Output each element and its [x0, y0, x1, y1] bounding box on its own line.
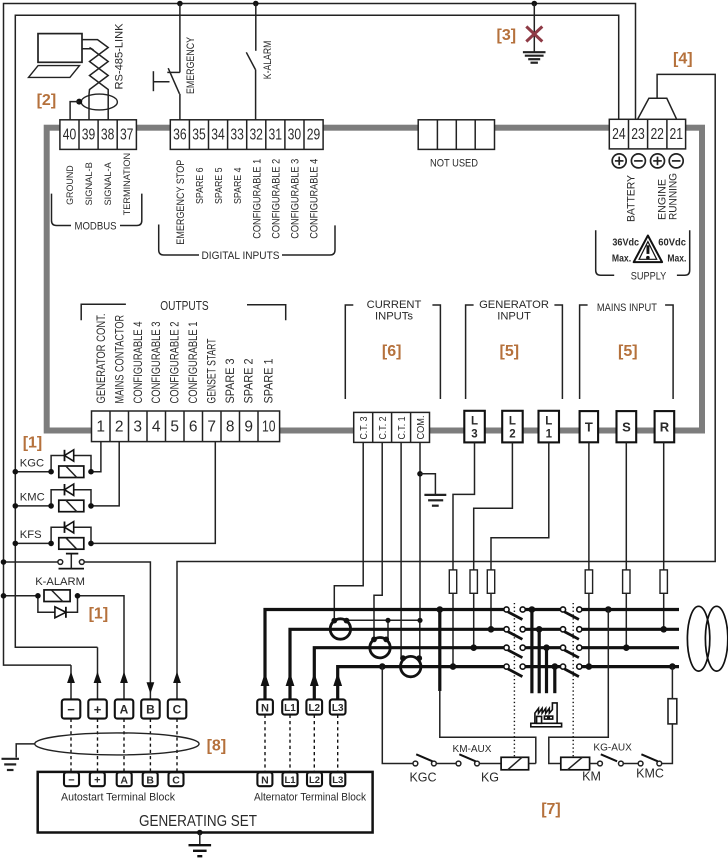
svg-text:Max.: Max.: [667, 252, 686, 264]
wire N drop to KG coil circuit: [438, 610, 441, 692]
wire CT common line to COM: [347, 619, 421, 621]
wire KM coil to KG-AUX: [590, 763, 598, 765]
terminal box B row1: [141, 699, 160, 718]
gray device outline bus: [47, 128, 702, 431]
terminal strip NOT USED: [418, 120, 494, 150]
contact KG-AUX: [593, 742, 632, 765]
terminal box N row2: [257, 772, 272, 786]
bus L1 generator: [290, 629, 679, 699]
svg-text:SUPPLY: SUPPLY: [631, 270, 667, 282]
polarity circle - (21): [669, 154, 683, 168]
svg-text:C.T. 2: C.T. 2: [378, 416, 389, 439]
node dots on busses: [379, 606, 676, 670]
svg-text:CONFIGURABLE 4: CONFIGURABLE 4: [309, 159, 321, 239]
svg-text:[2]: [2]: [37, 92, 57, 109]
svg-text:GENERATING SET: GENERATING SET: [139, 813, 257, 830]
svg-text:[3]: [3]: [497, 27, 517, 44]
terminal box plus row2: [90, 772, 105, 786]
svg-text:5: 5: [170, 418, 179, 435]
terminal strip 36-29: [170, 120, 323, 150]
terminal S: [617, 411, 637, 442]
svg-text:[6]: [6]: [382, 343, 402, 360]
svg-text:BATTERY: BATTERY: [626, 175, 638, 222]
svg-text:[5]: [5]: [500, 343, 520, 360]
svg-text:C: C: [173, 703, 182, 717]
svg-text:−: −: [67, 702, 75, 717]
svg-text:38: 38: [101, 127, 115, 144]
svg-text:L2: L2: [308, 703, 320, 714]
terminal box A row1: [115, 699, 134, 718]
svg-text:KMC: KMC: [636, 766, 664, 780]
relay K-ALARM: [1, 576, 124, 699]
svg-text:KGC: KGC: [20, 458, 44, 470]
svg-text:C.T. 1: C.T. 1: [397, 416, 408, 439]
wire KG coil up to N: [529, 763, 536, 765]
svg-text:31: 31: [269, 127, 283, 144]
bracket SUPPLY: [596, 230, 690, 282]
contactor KG poles: [504, 607, 525, 677]
svg-text:KM-AUX: KM-AUX: [453, 744, 492, 755]
wire: K-ALARM input branch to terminal 32: [246, 4, 256, 120]
bracket MAINS INPUT [5]: [580, 302, 674, 399]
polarity circle + (24): [612, 154, 626, 168]
svg-text:COM.: COM.: [416, 416, 427, 440]
svg-text:C: C: [172, 774, 180, 786]
wire L3 input with fuse: [453, 442, 475, 666]
svg-text:GENSET START: GENSET START: [205, 338, 219, 403]
svg-text:SPARE 2: SPARE 2: [242, 358, 256, 403]
svg-text:INPUT: INPUT: [497, 310, 531, 322]
svg-text:EMERGENCY: EMERGENCY: [185, 37, 197, 94]
svg-text:SPARE 4: SPARE 4: [233, 167, 244, 204]
svg-text:B: B: [146, 703, 155, 717]
svg-text:L1: L1: [284, 703, 296, 714]
ground symbol genset: [189, 845, 212, 856]
wire: ground branch [3]: [533, 4, 535, 52]
polarity circle + (22): [651, 154, 665, 168]
svg-text:A: A: [120, 703, 129, 717]
svg-text:2: 2: [115, 418, 124, 435]
connector trapezoid engine running: [638, 98, 677, 119]
linkage dotted KG: [513, 603, 515, 758]
wire C.T.1 to CT circle 3: [400, 442, 402, 657]
terminal box L2 row2: [307, 772, 322, 786]
coil KM: [561, 757, 601, 783]
terminal box N row1: [257, 699, 273, 714]
generator motor symbol: [687, 606, 727, 671]
svg-text:23: 23: [631, 126, 645, 143]
switch actuator: emergency push button: [153, 71, 169, 91]
svg-text:22: 22: [650, 126, 664, 143]
wire bus N to KM coil: [549, 610, 609, 764]
svg-text:2: 2: [509, 429, 515, 441]
arrow L3 up: [333, 673, 342, 687]
arrow C up: [173, 672, 181, 684]
terminal box A row2: [117, 772, 132, 786]
svg-text:L3: L3: [332, 775, 343, 786]
ground symbol COM: [424, 495, 446, 506]
bracket CURRENT INPUTs [6]: [345, 299, 440, 399]
svg-text:SPARE 3: SPARE 3: [223, 358, 237, 403]
terminal box minus row2: [64, 772, 79, 786]
svg-text:L1: L1: [284, 775, 296, 786]
load feeder drops: [532, 610, 555, 694]
svg-text:29: 29: [307, 127, 321, 144]
svg-text:SIGNAL-A: SIGNAL-A: [103, 162, 114, 206]
shield ellipse around modbus wires: [81, 94, 117, 110]
pushbutton contact to B: [1, 554, 151, 700]
svg-text:[1]: [1]: [89, 606, 109, 623]
bracket DIGITAL INPUTS: [159, 225, 335, 263]
svg-text:R: R: [660, 420, 670, 435]
terminal box L1 row2: [283, 772, 298, 786]
svg-text:35: 35: [192, 127, 206, 144]
svg-text:1: 1: [96, 418, 105, 435]
svg-text:3: 3: [133, 418, 142, 435]
terminal T: [580, 411, 599, 442]
bus L2 generator: [314, 648, 679, 700]
svg-text:GENERATOR CONT.: GENERATOR CONT.: [94, 314, 108, 404]
bus N (alternator neutral): [265, 610, 679, 700]
svg-text:33: 33: [230, 127, 244, 144]
svg-text:KM: KM: [582, 770, 601, 784]
contactor KM poles: [560, 607, 582, 677]
svg-text:[8]: [8]: [207, 738, 227, 755]
svg-text:6: 6: [189, 418, 198, 435]
terminal L3: [464, 411, 485, 443]
svg-text:A: A: [120, 774, 128, 786]
GENERATING SET box: [38, 772, 373, 833]
contact KMC: [636, 754, 664, 780]
terminal box C row1: [168, 699, 187, 718]
terminal box C row2: [169, 772, 184, 786]
svg-text:KGC: KGC: [409, 770, 436, 784]
arrow L2 up: [310, 673, 319, 687]
coil KG: [481, 757, 529, 784]
svg-text:L: L: [545, 416, 552, 428]
terminal box plus row1: [88, 699, 107, 718]
wire C.T.2 to CT circle 2: [374, 442, 382, 639]
wire: shield to terminal 40: [70, 102, 79, 120]
svg-text:SIGNAL-B: SIGNAL-B: [84, 162, 95, 205]
svg-text:24: 24: [612, 126, 626, 143]
svg-text:GENERATOR: GENERATOR: [479, 299, 549, 311]
wire COM down with ground branch: [419, 442, 421, 620]
svg-text:N: N: [261, 702, 269, 714]
svg-text:NOT USED: NOT USED: [430, 158, 478, 170]
terminal R: [655, 411, 675, 442]
wire KG-AUX to KMC: [623, 763, 638, 765]
svg-text:7: 7: [207, 418, 216, 435]
wire bus L3 to KGC contact chain: [382, 667, 413, 764]
svg-text:KMC: KMC: [20, 492, 45, 504]
warning triangle: [634, 236, 662, 263]
svg-text:36: 36: [173, 127, 187, 144]
contact KGC: [409, 754, 436, 784]
linkage dotted KM: [572, 603, 574, 758]
terminal strip 24-21: [609, 119, 685, 149]
svg-text:S: S: [622, 420, 631, 435]
svg-text:CONFIGURABLE 3: CONFIGURABLE 3: [149, 321, 163, 403]
svg-text:RS-485-LINK: RS-485-LINK: [113, 23, 125, 90]
svg-text:CONFIGURABLE 2: CONFIGURABLE 2: [168, 321, 182, 403]
wire S input with fuse: [625, 442, 627, 647]
svg-text:C.T. 3: C.T. 3: [359, 416, 370, 439]
svg-text:CONFIGURABLE 2: CONFIGURABLE 2: [270, 159, 282, 239]
factory load icon: [531, 703, 562, 727]
wire: engine running loop [4] to C terminal: [177, 74, 715, 699]
relay KMC: [13, 442, 120, 512]
svg-text:SPARE 6: SPARE 6: [195, 167, 206, 204]
terminal box minus row1: [62, 699, 81, 718]
svg-text:36Vdc: 36Vdc: [612, 237, 639, 249]
svg-text:KG: KG: [481, 770, 499, 784]
laptop computer icon: [29, 34, 83, 78]
bus L3 generator: [338, 667, 679, 700]
arrow A up: [120, 672, 128, 684]
wire R input with fuse: [663, 442, 665, 629]
svg-text:KFS: KFS: [20, 529, 42, 541]
svg-text:K-ALARM: K-ALARM: [35, 576, 85, 588]
wire KM-AUX to KG coil: [479, 763, 501, 765]
svg-text:CONFIGURABLE 1: CONFIGURABLE 1: [186, 321, 200, 403]
svg-text:MAINS INPUT: MAINS INPUT: [597, 302, 657, 314]
terminal strip outputs 1-10: [92, 411, 280, 442]
terminal L1: [539, 411, 560, 443]
svg-text:K-ALARM: K-ALARM: [262, 41, 274, 80]
svg-text:TERMINATION: TERMINATION: [122, 153, 133, 216]
svg-text:10: 10: [262, 418, 276, 435]
svg-text:−: −: [68, 775, 74, 787]
svg-text:[5]: [5]: [618, 343, 638, 360]
svg-text:+: +: [94, 702, 102, 717]
wire shield to ground: [16, 744, 35, 758]
node ground genset: [197, 830, 203, 836]
svg-text:T: T: [585, 420, 593, 435]
terminal box L2 row1: [306, 699, 322, 714]
wire KMC up through fuse to bus L3: [662, 667, 673, 764]
ground symbol shield: [2, 759, 20, 770]
terminal box B row2: [143, 772, 158, 786]
arrow B down: [147, 682, 155, 694]
ground symbol top: [523, 52, 546, 63]
wire plus arrow: [97, 647, 99, 699]
svg-text:Autostart Terminal Block: Autostart Terminal Block: [61, 791, 175, 803]
svg-text:+: +: [94, 775, 100, 787]
svg-text:B: B: [146, 774, 154, 786]
wire T input with fuse: [588, 442, 590, 666]
bracket OUTPUTS: [81, 299, 286, 321]
svg-text:3: 3: [471, 429, 477, 441]
terminal L2: [502, 411, 523, 443]
wire L1 input with fuse: [491, 442, 549, 629]
wire: outer loop rail from minus arrow up over top to terminal 23: [4, 4, 636, 666]
svg-text:CONFIGURABLE 1: CONFIGURABLE 1: [251, 159, 263, 239]
svg-text:CONFIGURABLE 4: CONFIGURABLE 4: [131, 321, 145, 403]
terminal box L3 row2: [330, 772, 345, 786]
svg-text:L: L: [471, 416, 478, 428]
svg-text:CURRENT: CURRENT: [367, 299, 422, 311]
svg-text:Max.: Max.: [612, 252, 631, 264]
svg-text:N: N: [261, 774, 269, 786]
svg-text:21: 21: [670, 126, 684, 143]
polarity circle - (23): [631, 154, 645, 168]
relay KGC: [13, 442, 101, 478]
current transformer CT2 on L2: [370, 637, 390, 658]
svg-text:SPARE 1: SPARE 1: [262, 358, 276, 403]
no-connection red X: [526, 27, 542, 42]
node: junction dots on top rail: [177, 1, 183, 7]
arrow L1 up: [286, 673, 295, 687]
svg-text:GROUND: GROUND: [65, 165, 76, 205]
relay KFS: [13, 442, 216, 550]
bracket GENERATOR INPUT [5]: [466, 299, 563, 399]
svg-text:37: 37: [120, 127, 134, 144]
svg-text:INPUTs: INPUTs: [375, 310, 413, 322]
svg-text:40: 40: [63, 127, 77, 144]
svg-text:RUNNING: RUNNING: [668, 173, 680, 220]
wire: RS-485 twisted pair: [82, 40, 108, 120]
wire L2 input with fuse: [474, 442, 513, 647]
svg-text:L3: L3: [332, 703, 344, 714]
terminal box L1 row1: [282, 699, 298, 714]
terminal strip 40-37: [60, 120, 136, 150]
contact KM-AUX: [453, 744, 492, 766]
svg-text:MAINS CONTACTOR: MAINS CONTACTOR: [112, 315, 126, 404]
svg-text:34: 34: [211, 127, 225, 144]
arrow N up: [261, 673, 270, 687]
svg-text:9: 9: [244, 418, 253, 435]
svg-text:KG-AUX: KG-AUX: [593, 742, 632, 753]
svg-text:60Vdc: 60Vdc: [658, 237, 686, 249]
svg-text:[7]: [7]: [541, 801, 561, 818]
current transformer CT3 on L3: [400, 655, 422, 677]
terminal strip C.T.: [354, 412, 430, 442]
svg-text:30: 30: [288, 127, 302, 144]
wire: inner loop rail from plus arrow up over top to terminal 24: [15, 15, 618, 647]
current transformer CT1 on L1: [330, 618, 350, 640]
svg-text:Alternator Terminal Block: Alternator Terminal Block: [254, 791, 366, 803]
svg-text:1: 1: [546, 429, 553, 441]
svg-text:L2: L2: [309, 775, 320, 786]
svg-text:[1]: [1]: [23, 435, 43, 452]
wire C.T.3 to CT circle 1: [334, 442, 363, 620]
svg-text:32: 32: [249, 127, 263, 144]
terminal box L3 row1: [330, 699, 346, 714]
svg-text:[4]: [4]: [673, 51, 693, 68]
svg-text:OUTPUTS: OUTPUTS: [160, 299, 208, 313]
svg-text:L: L: [509, 416, 516, 428]
node: shield drain junction: [76, 99, 82, 105]
wire genset ground: [199, 833, 201, 845]
svg-text:39: 39: [82, 127, 96, 144]
svg-text:8: 8: [226, 418, 235, 435]
svg-text:SPARE 5: SPARE 5: [214, 167, 225, 204]
cable shield ellipse [8]: [35, 733, 199, 755]
wire KGC to KM-AUX: [436, 763, 456, 765]
bracket MODBUS: [52, 194, 142, 233]
svg-text:DIGITAL INPUTS: DIGITAL INPUTS: [202, 250, 280, 262]
svg-text:4: 4: [152, 418, 161, 435]
dashed wires to generating set: [71, 715, 338, 773]
svg-text:MODBUS: MODBUS: [75, 221, 117, 233]
svg-text:EMERGENCY STOP: EMERGENCY STOP: [175, 160, 187, 245]
svg-text:CONFIGURABLE 3: CONFIGURABLE 3: [290, 159, 302, 239]
wire: emergency stop branch to terminal 36: [167, 4, 180, 120]
wire minus arrow: [70, 665, 72, 699]
